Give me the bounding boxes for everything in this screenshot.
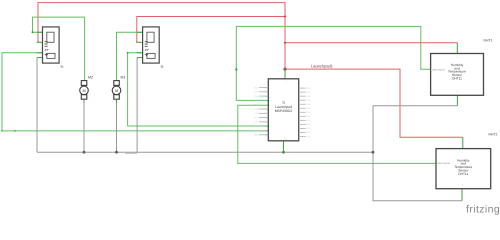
pin stub green RHT2 top [462,137,464,148]
wire green RHT1 data to chip row5 [236,26,430,100]
inner rect bottom S2 [147,53,155,58]
pin stub green chip VCC top [284,69,286,79]
tiny glyphs S2 [145,42,149,56]
wire red net VCC: comp1 pin to top rail [38,3,285,70]
node green bendpoint [32,31,34,33]
component S2 driver module [137,27,165,69]
inner rect bottom S1 [47,53,55,58]
svg-text:Launchpad1: Launchpad1 [311,64,334,69]
svg-text:RHT1: RHT1 [484,39,493,43]
pin stubs green S1 [37,32,43,57]
pin stub green M2 bottom [83,99,85,103]
node gray junction dots on bus [83,151,86,154]
wire gray bus overlap segment [125,152,137,154]
wire green M2 net: comp1 pin1 over box to motor M2 [33,17,85,81]
wire gray comp1 gnd drop [36,58,38,153]
wire green comp1 signal to chip row15 [2,53,268,131]
node red wire end tips [37,41,39,43]
pin stub green RHT1 bottom [456,95,458,106]
pin stub green RHT1 top [456,43,458,54]
svg-text:data signal: data signal [437,162,450,165]
svg-text:VCC: VCC [254,86,259,89]
svg-text:GND: GND [254,134,259,137]
wire gray GND bus [37,151,373,153]
node green bendpoint comp2 signal corner [127,52,129,54]
node green bendpoint on comp1 signal [14,130,16,132]
wire green M1 net: comp2 pin1 to motor M1 [117,32,143,80]
wire gray M2 gnd drop [83,101,85,152]
chip center text [275,101,293,113]
node red junction dots [284,15,286,17]
svg-text:fritzing: fritzing [466,204,500,216]
inner rect top S1 [47,32,54,42]
wire gray M1 gnd drop [116,101,118,152]
svg-text:M2: M2 [88,76,93,80]
component S1 driver module [37,27,64,69]
pin stubs green S2 [137,32,143,57]
svg-text:data signal: data signal [432,68,445,71]
pin stubs left chip [259,88,268,135]
wire red from junction to RHT2 VCC [285,69,463,137]
wire gray comp2 gnd drop [136,58,138,153]
inner rect top S2 [147,32,154,42]
op chip U1 TI Launchpad MSP430G2 [254,64,334,153]
pin stub green RHT2 bottom [461,189,463,201]
svg-text:M: M [83,89,86,93]
sensor RHT2 DHT11 [436,133,497,201]
svg-text:M: M [115,89,118,93]
tiny glyphs S1 [45,42,49,56]
node green bendpoint on RHT1 data vertical [235,68,237,70]
pin stub green M1 bottom [116,99,118,103]
wire red branch comp2 pin [137,17,285,43]
pin stub green chip GND bottom [283,141,285,152]
svg-text:DHT11: DHT11 [458,172,468,176]
pin labels right chip [306,87,311,138]
wire green RHT2 data to chip row7 [238,105,436,163]
wire red branch to RHT1 VCC [285,42,457,44]
pin stubs right chip [299,88,306,136]
motor M2 [80,76,93,104]
svg-text:MSP430G2: MSP430G2 [275,109,293,113]
sensor RHT1 DHT11 [431,39,493,106]
svg-text:M1: M1 [121,76,126,80]
pin labels left chip [254,86,259,136]
svg-text:RHT2: RHT2 [489,133,498,137]
motor M1 [112,76,125,104]
svg-text:DHT11: DHT11 [452,76,462,80]
wire green comp2 signal to chip row13 [128,53,269,126]
wire gray RHT1 gnd to bus and RHT2 gnd [373,106,462,201]
